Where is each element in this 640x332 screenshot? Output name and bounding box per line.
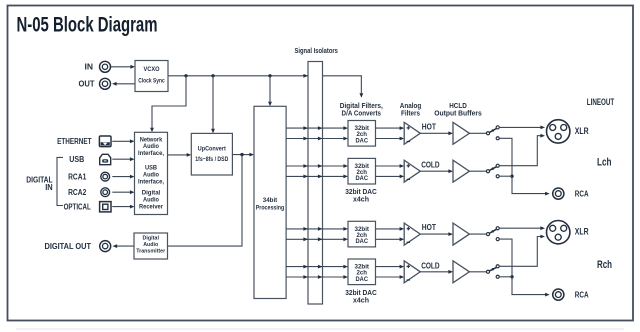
wire analog filter to HCLD buffer: [420, 233, 449, 235]
svg-text:COLD: COLD: [421, 161, 439, 170]
svg-text:Digital: Digital: [142, 236, 159, 242]
wire HCLD buffer to switch: [469, 233, 486, 235]
wire 34bit to DAC: [286, 266, 344, 268]
svg-text:Interface,: Interface,: [138, 178, 164, 185]
wire COLD to XLR Rch: [499, 237, 541, 267]
svg-text:ETHERNET: ETHERNET: [57, 137, 92, 146]
junction RCA feed Lch: [510, 175, 513, 178]
svg-text:LINEOUT: LINEOUT: [587, 97, 615, 107]
svg-text:RCA2: RCA2: [68, 188, 87, 197]
block 32bit 2ch DAC: [348, 259, 376, 285]
wire transmitter to digital out: [116, 245, 134, 247]
svg-text:DAC: DAC: [356, 276, 369, 283]
wire 34bit to DAC: [286, 276, 344, 278]
wire DAC to analog filter: [376, 228, 401, 230]
connector OUT (clock): [100, 78, 111, 89]
svg-text:HOT: HOT: [422, 122, 436, 131]
wire 34bit to DAC: [286, 228, 344, 230]
wire 34bit to DAC: [286, 175, 344, 177]
svg-text:Clock Sync: Clock Sync: [138, 78, 165, 84]
connector OPTICAL icon: [100, 202, 111, 212]
wire RCA1 to network box: [112, 176, 131, 178]
svg-text:Processing: Processing: [256, 205, 285, 212]
wire COLD to XLR Lch: [499, 136, 541, 166]
wire clock bus: [168, 75, 362, 77]
wire 34bit to DAC: [286, 138, 344, 140]
wire RCA2 to network box: [112, 191, 131, 193]
svg-text:DIGITAL OUT: DIGITAL OUT: [45, 242, 92, 251]
connector IN (clock): [100, 61, 111, 72]
svg-text:Lch: Lch: [597, 157, 612, 169]
connector RCA Lch: [553, 188, 564, 199]
wire DAC to analog filter: [376, 238, 401, 240]
wire OPTICAL to network box: [112, 206, 131, 208]
op-amp analog filter: [404, 261, 420, 283]
junction RCA feed Rch: [510, 275, 513, 278]
block Signal Isolators: [308, 62, 323, 305]
junction clock-network: [184, 74, 187, 77]
block 32bit 2ch DAC: [348, 121, 376, 147]
svg-text:RCA1: RCA1: [68, 172, 87, 181]
wire HCLD buffer to switch: [469, 132, 486, 134]
block UpConvert 1fs-8fs/DSD: [191, 133, 232, 175]
svg-text:DAC: DAC: [356, 175, 369, 182]
svg-text:Interface,: Interface,: [138, 150, 164, 157]
arrow clock out of isolator: [318, 74, 323, 78]
connector XLR Rch: [547, 221, 570, 244]
svg-text:Rch: Rch: [597, 259, 612, 271]
wire DAC to analog filter: [376, 127, 401, 129]
wire upconvert to 34bit: [232, 154, 250, 156]
connector RCA Rch: [553, 289, 564, 300]
wire analog filter to HCLD buffer: [420, 170, 449, 172]
svg-text:Receiver: Receiver: [139, 203, 164, 210]
op-amp HCLD buffer: [453, 223, 469, 245]
wire COLD lower to junction Lch: [499, 175, 512, 177]
wire analog filter to HCLD buffer: [420, 132, 449, 134]
svg-text:DAC: DAC: [356, 137, 369, 144]
svg-text:XLR: XLR: [575, 126, 589, 136]
svg-text:x4ch: x4ch: [353, 195, 369, 204]
wire VCXO to OUT: [116, 83, 136, 85]
wire HOT to XLR Rch: [499, 227, 541, 229]
wire analog filter to HCLD buffer: [420, 271, 449, 273]
wire HOT lower to RCA Rch: [499, 239, 546, 295]
wire USB to network box: [112, 158, 131, 160]
svg-text:x4ch: x4ch: [353, 295, 369, 304]
wire DAC to analog filter: [376, 276, 401, 278]
block 32bit 2ch DAC: [348, 158, 376, 184]
wire HOT lower to RCA Lch: [499, 138, 546, 193]
svg-text:RCA: RCA: [575, 188, 589, 198]
wire clock to DAC clock drop: [360, 76, 362, 95]
svg-text:D/A Converts: D/A Converts: [342, 108, 382, 117]
op-amp analog filter: [404, 122, 420, 144]
junction clock-34bit: [268, 74, 271, 77]
svg-text:XLR: XLR: [575, 227, 589, 237]
svg-text:IN: IN: [85, 63, 94, 72]
junction upconvert-digital out: [240, 153, 243, 156]
svg-text:Audio: Audio: [143, 242, 158, 248]
switch HOT Lch: [489, 128, 497, 132]
wire network to upconvert: [168, 154, 188, 156]
connector XLR Lch: [547, 120, 570, 143]
svg-text:Filters: Filters: [401, 108, 420, 117]
svg-text:USB: USB: [69, 155, 84, 164]
svg-text:OUT: OUT: [79, 80, 95, 89]
op-amp HCLD buffer: [453, 261, 469, 283]
wire HOT to XLR Lch: [499, 126, 541, 128]
block 32bit 2ch DAC: [348, 221, 376, 247]
wire COLD lower to junction Rch: [499, 276, 512, 278]
block VCXO Clock Sync: [135, 61, 168, 92]
svg-text:DAC: DAC: [356, 238, 369, 245]
svg-text:HOT: HOT: [422, 223, 436, 232]
bottom artifact line: [16, 328, 624, 330]
wire ETHERNET to network box: [112, 140, 131, 142]
switch HOT Rch: [489, 229, 497, 233]
wire DAC to analog filter: [376, 266, 401, 268]
arrow clock into isolator: [303, 74, 308, 78]
wire 34bit to DAC: [286, 165, 344, 167]
block Network Audio Interface: [135, 132, 168, 214]
svg-text:VCXO: VCXO: [144, 67, 160, 73]
svg-text:N-05 Block Diagram: N-05 Block Diagram: [17, 13, 158, 37]
wire 34bit to DAC: [286, 127, 344, 129]
wire branch to digital audio transmitter: [168, 155, 243, 247]
bracket digital in group: [57, 157, 63, 205]
block Digital Audio Transmitter: [134, 233, 168, 259]
wire clock to network interface: [152, 76, 186, 129]
wire HCLD buffer to switch: [469, 271, 486, 273]
junction clock-upconvert: [211, 74, 214, 77]
switch COLD Lch: [489, 167, 497, 171]
wire DAC to analog filter: [376, 175, 401, 177]
block 34bit Processing: [254, 106, 286, 298]
svg-text:IN: IN: [45, 183, 53, 192]
op-amp analog filter: [404, 223, 420, 245]
wire HCLD buffer to switch: [469, 170, 486, 172]
svg-text:COLD: COLD: [421, 261, 439, 270]
op-amp HCLD buffer: [453, 122, 469, 144]
connector ETHERNET icon: [99, 136, 111, 147]
switch COLD Rch: [489, 267, 497, 271]
connector RCA2 icon: [101, 188, 110, 197]
op-amp analog filter: [404, 160, 420, 182]
wire DAC to analog filter: [376, 138, 401, 140]
wire DAC to analog filter: [376, 165, 401, 167]
wire 34bit to DAC: [286, 238, 344, 240]
connector DIGITAL OUT: [100, 241, 111, 252]
svg-text:UpConvert: UpConvert: [198, 146, 227, 153]
svg-text:OPTICAL: OPTICAL: [64, 202, 91, 211]
connector RCA1 icon: [101, 172, 110, 181]
svg-text:RCA: RCA: [575, 289, 589, 299]
svg-text:1fs~8fs / DSD: 1fs~8fs / DSD: [195, 157, 229, 163]
svg-text:Signal Isolators: Signal Isolators: [294, 46, 338, 55]
wire clock to upconvert: [212, 76, 214, 130]
wire clock to 34bit processing: [269, 76, 271, 103]
svg-text:Transmitter: Transmitter: [136, 249, 166, 255]
wire IN to VCXO: [111, 66, 132, 68]
op-amp HCLD buffer: [453, 160, 469, 182]
connector USB icon: [100, 154, 111, 164]
svg-text:Output Buffers: Output Buffers: [434, 108, 482, 117]
svg-text:34bit: 34bit: [263, 197, 278, 204]
